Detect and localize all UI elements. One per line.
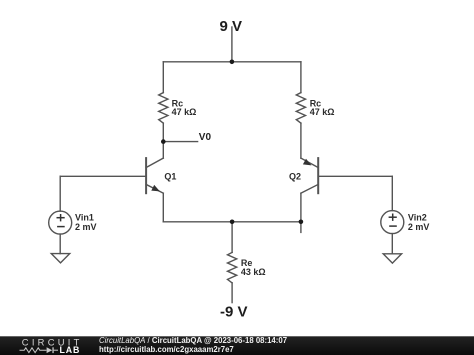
svg-text:Q2: Q2 (289, 172, 301, 182)
svg-text:9 V: 9 V (220, 18, 243, 35)
svg-text:43 kΩ: 43 kΩ (241, 267, 266, 277)
svg-text:http://circuitlab.com/c2gxaaam: http://circuitlab.com/c2gxaaam2r7e7 (99, 345, 234, 354)
svg-text:2 mV: 2 mV (75, 222, 97, 232)
svg-text:47 kΩ: 47 kΩ (172, 107, 197, 117)
svg-text:2 mV: 2 mV (408, 222, 430, 232)
svg-text:47 kΩ: 47 kΩ (310, 107, 335, 117)
svg-text:Q1: Q1 (164, 172, 176, 182)
svg-text:LAB: LAB (60, 345, 81, 355)
svg-text:V0: V0 (199, 132, 212, 143)
svg-text:-9 V: -9 V (220, 304, 248, 321)
svg-text:CircuitLabQA / CircuitLabQA @: CircuitLabQA / CircuitLabQA @ 2023-06-18… (99, 336, 287, 345)
